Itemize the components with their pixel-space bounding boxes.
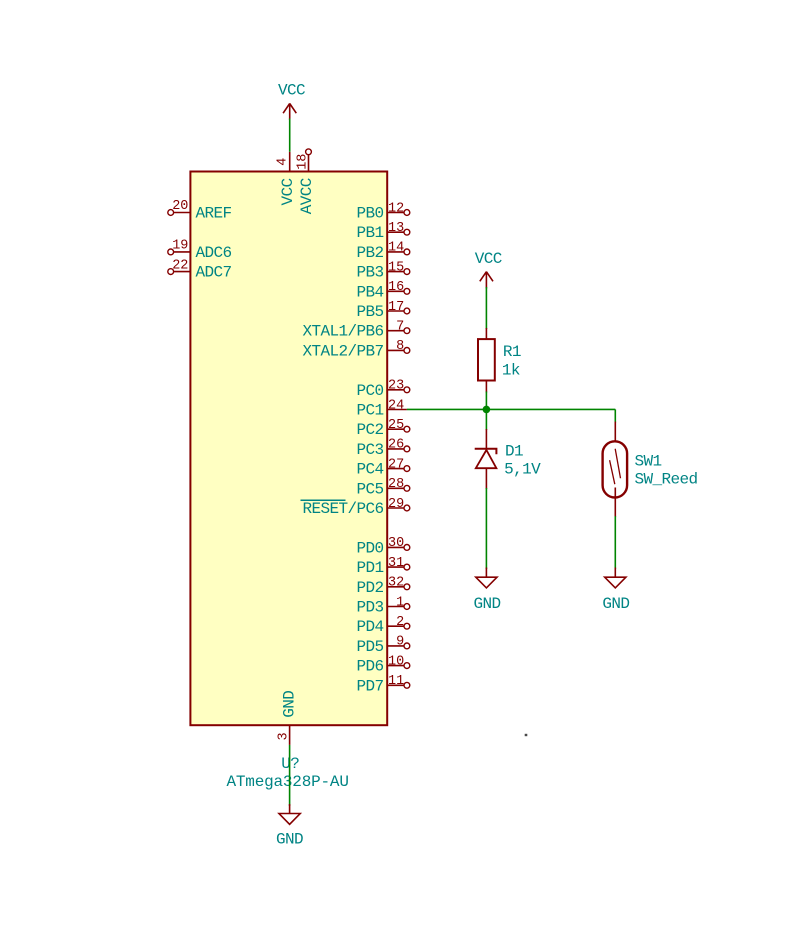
svg-text:8: 8 <box>396 339 404 354</box>
svg-text:27: 27 <box>388 457 404 472</box>
ground symbol GND (below D1) <box>473 568 500 614</box>
svg-text:SW1: SW1 <box>635 453 662 471</box>
svg-text:PC2: PC2 <box>356 421 383 439</box>
svg-text:ADC7: ADC7 <box>196 264 232 282</box>
svg-text:29: 29 <box>388 497 404 512</box>
svg-text:VCC: VCC <box>278 82 305 100</box>
svg-text:AVCC: AVCC <box>298 178 316 214</box>
svg-text:28: 28 <box>388 477 404 492</box>
svg-text:PC5: PC5 <box>356 480 383 498</box>
pin 23 (PC0) right side <box>356 379 409 400</box>
wire D1 to GND <box>485 488 487 569</box>
svg-text:11: 11 <box>388 674 404 689</box>
op-amp U1 body (ATmega328P-AU IC rectangle) <box>190 172 387 726</box>
pin 3 (GND) bottom side <box>276 691 298 745</box>
svg-text:GND: GND <box>602 595 629 613</box>
pin 10 (PD6) right side <box>356 654 409 675</box>
svg-text:PB4: PB4 <box>356 283 383 301</box>
pin 29 (RESET/PC6) right side <box>301 497 410 518</box>
pin 17 (PB5) right side <box>356 300 409 321</box>
svg-text:1k: 1k <box>502 361 520 379</box>
svg-text:1: 1 <box>396 595 404 610</box>
svg-text:PB0: PB0 <box>356 205 383 223</box>
svg-text:PD1: PD1 <box>356 559 383 577</box>
pin 28 (PC5) right side <box>356 477 409 498</box>
wire PC1 pin to SW1 corner (horizontal) <box>407 408 615 410</box>
power symbol VCC (top, net VCC) <box>278 82 305 120</box>
svg-text:PD3: PD3 <box>356 599 383 617</box>
svg-text:PC0: PC0 <box>356 382 383 400</box>
svg-text:PD2: PD2 <box>356 579 383 597</box>
diode D1 (zener) <box>475 429 497 489</box>
svg-text:25: 25 <box>388 418 404 433</box>
svg-text:32: 32 <box>388 576 404 591</box>
svg-text:RESET/PC6: RESET/PC6 <box>302 500 383 518</box>
svg-text:GND: GND <box>276 831 303 849</box>
wire VCC symbol to pin 4 <box>289 119 291 152</box>
svg-text:XTAL2/PB7: XTAL2/PB7 <box>302 342 383 360</box>
pin 1 (PD3) right side <box>356 595 409 616</box>
svg-text:16: 16 <box>388 280 404 295</box>
svg-text:VCC: VCC <box>475 250 502 268</box>
svg-text:ADC6: ADC6 <box>196 244 232 262</box>
ground symbol GND (below SW1) <box>602 568 629 614</box>
svg-text:PD6: PD6 <box>356 658 383 676</box>
svg-text:SW_Reed: SW_Reed <box>635 471 698 489</box>
svg-text:VCC: VCC <box>279 178 297 205</box>
svg-text:14: 14 <box>388 241 404 256</box>
svg-text:PB5: PB5 <box>356 303 383 321</box>
svg-text:26: 26 <box>388 438 404 453</box>
pin 8 (XTAL2/PB7) right side <box>302 339 409 360</box>
svg-text:17: 17 <box>388 300 404 315</box>
svg-text:GND: GND <box>281 691 299 718</box>
pin 7 (XTAL1/PB6) right side <box>302 320 409 341</box>
pin 13 (PB1) right side <box>356 221 409 242</box>
wire SW1 to GND <box>614 516 616 569</box>
pin 19 (ADC6) left side <box>168 239 232 262</box>
pin 31 (PD1) right side <box>356 556 409 577</box>
svg-text:30: 30 <box>388 536 404 551</box>
svg-text:GND: GND <box>473 595 500 613</box>
svg-text:24: 24 <box>388 398 404 413</box>
svg-text:PD5: PD5 <box>356 638 383 656</box>
svg-text:XTAL1/PB6: XTAL1/PB6 <box>302 323 383 341</box>
svg-text:R1: R1 <box>503 343 521 361</box>
svg-text:PB3: PB3 <box>356 264 383 282</box>
svg-text:10: 10 <box>388 654 404 669</box>
pin 9 (PD5) right side <box>356 635 409 656</box>
pin 14 (PB2) right side <box>356 241 409 262</box>
svg-text:2: 2 <box>396 615 404 630</box>
wire corner to SW1 (vertical) <box>614 409 616 422</box>
svg-text:7: 7 <box>396 320 404 335</box>
svg-text:PB2: PB2 <box>356 244 383 262</box>
pin 4 (VCC) top side <box>276 152 297 206</box>
svg-text:PC4: PC4 <box>356 461 383 479</box>
svg-text:18: 18 <box>295 154 310 170</box>
pin 22 (ADC7) left side <box>168 258 232 281</box>
svg-text:20: 20 <box>172 199 188 214</box>
svg-text:13: 13 <box>388 221 404 236</box>
switch SW1 (reed) <box>603 422 628 518</box>
svg-text:PD7: PD7 <box>356 677 383 695</box>
resistor R1 <box>478 328 495 393</box>
pin 11 (PD7) right side <box>356 674 409 695</box>
pin 30 (PD0) right side <box>356 536 409 557</box>
svg-text:D1: D1 <box>505 442 523 460</box>
pin 26 (PC3) right side <box>356 438 409 459</box>
svg-text:PC1: PC1 <box>356 402 383 420</box>
svg-text:ATmega328P-AU: ATmega328P-AU <box>227 773 349 791</box>
pin 18 (AVCC) top side <box>295 149 316 214</box>
pin 20 (AREF) left side <box>168 199 232 222</box>
junction node at R1/D1/PC1 <box>483 406 491 414</box>
pin 24 (PC1) right side <box>356 398 406 419</box>
pin 2 (PD4) right side <box>356 615 409 636</box>
svg-text:PC3: PC3 <box>356 441 383 459</box>
wire VCC to R1 <box>485 287 487 329</box>
svg-text:3: 3 <box>276 732 291 740</box>
wire junction to D1 <box>485 409 487 430</box>
svg-text:PD0: PD0 <box>356 539 383 557</box>
wire pin 3 to GND symbol <box>289 745 291 806</box>
wire R1 to junction <box>485 392 487 410</box>
svg-text:4: 4 <box>276 158 291 166</box>
svg-text:23: 23 <box>388 379 404 394</box>
svg-text:PD4: PD4 <box>356 618 383 636</box>
svg-text:19: 19 <box>172 239 188 254</box>
svg-text:22: 22 <box>172 258 188 273</box>
stray dot artifact <box>525 734 528 736</box>
power symbol VCC (above R1, net VCC) <box>475 250 502 289</box>
svg-text:12: 12 <box>388 201 404 216</box>
pin 12 (PB0) right side <box>356 201 409 222</box>
svg-text:9: 9 <box>396 635 404 650</box>
ground symbol GND (below U1) <box>276 804 303 849</box>
pin 32 (PD2) right side <box>356 576 409 597</box>
pin 15 (PB3) right side <box>356 260 409 281</box>
pin 16 (PB4) right side <box>356 280 409 301</box>
pin 25 (PC2) right side <box>356 418 409 439</box>
pin 27 (PC4) right side <box>356 457 409 478</box>
svg-text:31: 31 <box>388 556 404 571</box>
svg-text:AREF: AREF <box>196 205 232 223</box>
svg-text:5,1V: 5,1V <box>504 461 541 479</box>
svg-text:PB1: PB1 <box>356 224 383 242</box>
svg-text:15: 15 <box>388 260 404 275</box>
